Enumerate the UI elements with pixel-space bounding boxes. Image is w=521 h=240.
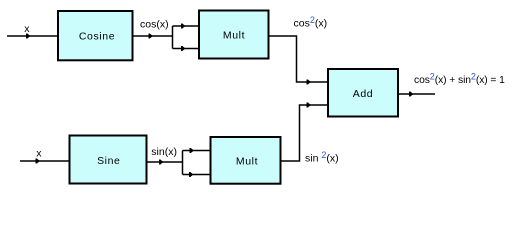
arrow into Mult2 input 1	[190, 148, 195, 153]
svg-text:Mult: Mult	[223, 30, 245, 42]
wire Mult2 output to Add input 2	[282, 105, 328, 161]
wire cos(x)	[134, 35, 174, 37]
wire x input top	[7, 35, 58, 37]
block Sine	[70, 136, 147, 184]
svg-text:Sine: Sine	[97, 155, 120, 167]
wire branch to Mult input 2	[173, 48, 200, 50]
arrow into Mult input 2	[181, 46, 186, 51]
svg-text:Cosine: Cosine	[79, 31, 115, 43]
arrow into Mult2 input 2	[189, 172, 194, 177]
block Add	[328, 69, 398, 117]
arrow on cos(x) wire	[149, 34, 154, 39]
svg-text:cos(x): cos(x)	[140, 19, 169, 31]
svg-text:x: x	[36, 148, 42, 160]
wire sin(x)	[148, 161, 184, 163]
wire Mult output to Add input 1	[270, 36, 328, 82]
block Mult (top)	[199, 11, 269, 59]
svg-text:sin(x): sin(x)	[151, 146, 177, 158]
svg-text:x: x	[24, 23, 30, 35]
svg-text:Add: Add	[353, 88, 373, 100]
arrow on x input bottom	[36, 159, 41, 164]
wire x input bottom	[20, 160, 70, 162]
wire branch to Mult2 input 1	[183, 150, 211, 152]
wire branch to Mult2 input 2	[183, 174, 211, 176]
arrow into Add input 2	[307, 103, 312, 108]
wire branch vertical bottom	[182, 151, 184, 175]
arrow into Mult input 1	[181, 24, 186, 29]
svg-text:Mult: Mult	[236, 156, 258, 168]
block Cosine	[58, 11, 133, 60]
arrow on Add output	[409, 92, 414, 97]
arrow into Add input 1	[307, 80, 312, 85]
block Mult (bottom)	[211, 137, 281, 184]
arrow on x input top	[26, 34, 31, 39]
wire Add output	[399, 93, 435, 95]
wire branch vertical top	[172, 26, 174, 49]
arrow on sin(x) wire	[159, 160, 164, 165]
wire branch to Mult input 1	[173, 25, 200, 27]
